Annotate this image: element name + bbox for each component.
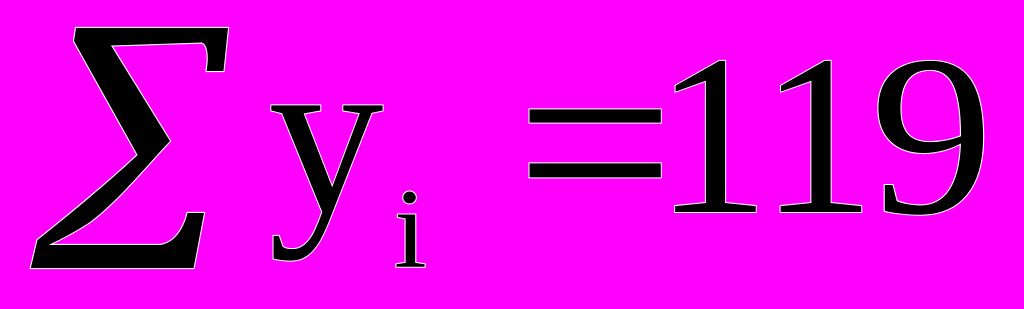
equals sign bottom bar — [530, 163, 661, 177]
svg-text:1: 1 — [761, 8, 876, 262]
subscript i — [394, 167, 427, 292]
summation sigma — [31, 28, 228, 268]
svg-text:i: i — [394, 167, 427, 292]
digit 9 — [871, 10, 994, 263]
svg-text:y: y — [269, 6, 384, 261]
svg-text:1: 1 — [655, 8, 770, 262]
equals sign top bar — [530, 109, 661, 122]
svg-text:9: 9 — [871, 10, 994, 263]
